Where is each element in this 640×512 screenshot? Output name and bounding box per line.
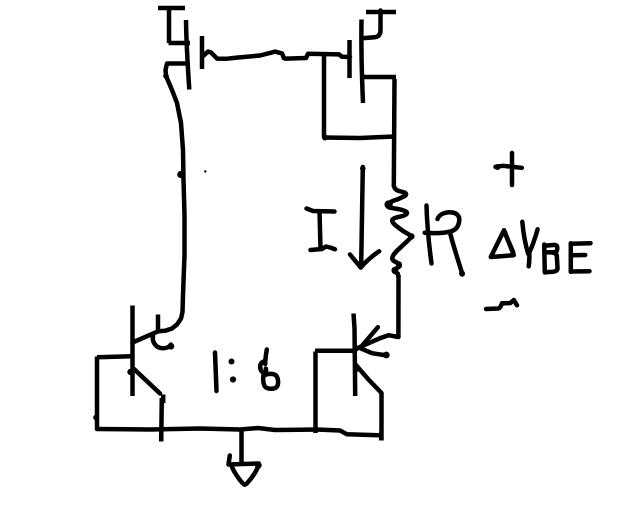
transistor Q1 (left BJT, diode-connected) xyxy=(97,306,174,442)
resistor R1 squiggle xyxy=(384,187,414,276)
wire gate M1 to gate M2 xyxy=(203,52,350,59)
wire Q1 base loop (left box) xyxy=(93,357,99,430)
label R xyxy=(425,206,465,277)
label 1:b ratio xyxy=(215,350,278,392)
wire Q2 base loop (right box) xyxy=(313,352,318,434)
wire ground rail xyxy=(97,428,378,435)
label I (current) xyxy=(307,209,336,251)
current arrow down xyxy=(350,166,379,268)
transistor M1 (left PMOS) xyxy=(158,8,202,90)
stray ink dot xyxy=(204,170,206,172)
label + (plus) xyxy=(495,153,522,185)
ground xyxy=(229,430,262,485)
knot on left wire xyxy=(177,171,184,178)
label delta V BE xyxy=(491,222,591,273)
wire M2 drain down to resistor xyxy=(392,79,397,187)
wire M1 drain down to Q1 collector xyxy=(133,64,185,343)
label minus (tilde) xyxy=(486,300,517,309)
transistor Q2 (right BJT) xyxy=(315,314,398,441)
wire resistor to Q2 collector xyxy=(396,275,401,338)
transistor M2 (right PMOS, diode-connected) xyxy=(350,11,397,104)
wire M2 gate-drain diode connection box xyxy=(322,56,394,141)
